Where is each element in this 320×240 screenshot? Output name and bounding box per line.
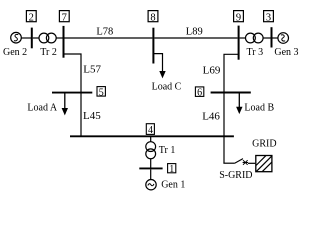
- svg-text:L69: L69: [203, 64, 221, 76]
- wire bus7 branch to L57/L45 riser: [64, 54, 81, 136]
- svg-text:6: 6: [197, 88, 202, 99]
- svg-text:8: 8: [150, 12, 155, 23]
- svg-text:L78: L78: [96, 27, 113, 38]
- svg-text:5: 5: [99, 88, 104, 99]
- bus 9 bar: [238, 26, 240, 60]
- generator Gen 1 sine glyph: [148, 184, 154, 186]
- wire Tr3 to bus3: [263, 37, 270, 39]
- svg-text:Load C: Load C: [152, 81, 182, 92]
- svg-text:Gen 2: Gen 2: [3, 47, 27, 58]
- line L78 wire: [65, 37, 153, 39]
- bus 3 bar: [271, 27, 273, 47]
- svg-text:9: 9: [236, 12, 241, 23]
- GRID hatching: [256, 156, 272, 172]
- wire star to GRID box: [248, 162, 255, 164]
- wire bus4 to Tr1: [150, 137, 152, 142]
- wire bus2 to Tr2: [33, 37, 39, 39]
- GRID box: [256, 156, 272, 172]
- switch S-GRID blade: [234, 159, 243, 164]
- transformer Tr 1: [146, 142, 156, 152]
- svg-text:Gen 1: Gen 1: [161, 179, 185, 190]
- generator Gen 3 sine glyph: [281, 35, 285, 41]
- svg-text:Load B: Load B: [244, 103, 274, 114]
- wire bus9 branch to L69/L46 riser: [224, 54, 238, 163]
- bus 5 bar: [52, 92, 92, 94]
- line L89 wire: [154, 37, 237, 39]
- bus 6 bar: [211, 92, 251, 94]
- node box 4: [146, 124, 154, 135]
- load C arrow head: [159, 71, 165, 78]
- svg-text:2: 2: [29, 12, 34, 23]
- generator Gen 2 circle: [11, 32, 22, 43]
- generator Gen 1 circle: [146, 180, 156, 190]
- wire bus8 branch to Load C: [153, 54, 162, 74]
- wire bus1 to Gen1: [150, 169, 152, 179]
- bus 1 bar: [139, 167, 162, 169]
- generator Gen 2 sine glyph: [14, 34, 18, 40]
- svg-text:Gen 3: Gen 3: [274, 47, 298, 58]
- transformer Tr 2: [39, 33, 49, 43]
- svg-text:L89: L89: [186, 27, 203, 38]
- svg-text:GRID: GRID: [252, 138, 276, 149]
- node box 6: [195, 87, 203, 97]
- node box 1: [168, 164, 176, 173]
- wire bus9 to Tr3: [240, 37, 246, 39]
- svg-text:Tr 2: Tr 2: [40, 47, 57, 58]
- svg-text:4: 4: [148, 125, 153, 136]
- load B arrow: [238, 93, 240, 107]
- svg-text:S-GRID: S-GRID: [219, 170, 252, 181]
- bus 8 bar: [152, 28, 154, 64]
- wire L46 bottom to switch: [223, 162, 234, 164]
- svg-text:1: 1: [169, 164, 174, 175]
- bus 7 bar: [63, 26, 65, 58]
- svg-text:7: 7: [62, 12, 67, 23]
- transformer Tr 3: [246, 33, 256, 43]
- generator Gen 3 circle: [278, 33, 289, 44]
- svg-text:Tr 1: Tr 1: [159, 145, 176, 156]
- node box 7: [59, 11, 69, 22]
- svg-text:L45: L45: [83, 110, 101, 122]
- switch contact star: [243, 160, 248, 165]
- bus 4 bar: [70, 135, 234, 137]
- bus 2 bar: [31, 28, 33, 49]
- svg-text:L46: L46: [202, 110, 220, 122]
- load A arrow: [64, 94, 66, 110]
- node box 2: [26, 11, 36, 22]
- svg-text:L57: L57: [83, 64, 101, 76]
- node box 5: [97, 87, 105, 97]
- wire bus3 to Gen3: [273, 37, 279, 39]
- node box 9: [234, 11, 244, 22]
- wire Tr1 to bus1: [150, 159, 152, 168]
- node box 3: [264, 11, 274, 22]
- svg-text:Load A: Load A: [27, 102, 57, 113]
- wire Tr2 to bus7: [56, 37, 62, 39]
- svg-text:Tr 3: Tr 3: [247, 47, 264, 58]
- node box 8: [148, 11, 158, 22]
- wire Gen2 to bus2: [21, 37, 31, 39]
- svg-text:3: 3: [266, 12, 271, 23]
